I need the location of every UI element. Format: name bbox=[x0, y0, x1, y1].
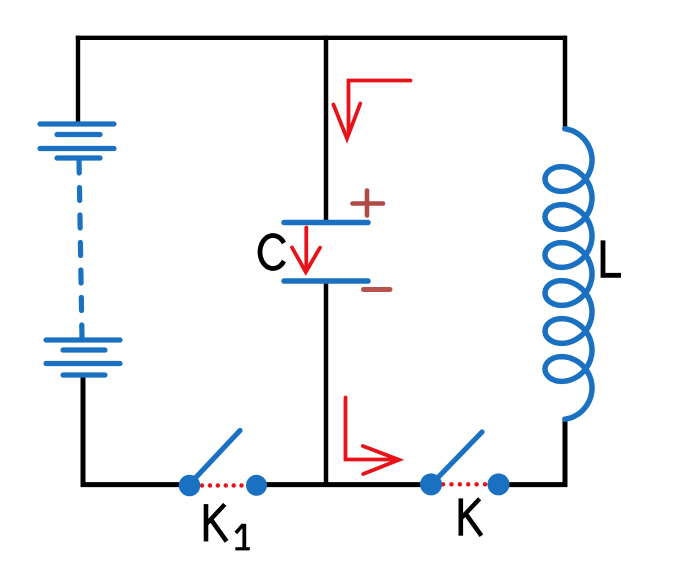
switch K: lever bbox=[437, 432, 482, 479]
battery B: top cell long plate bbox=[40, 121, 114, 126]
capacitor C: plus sign bbox=[353, 191, 384, 216]
capacitor C: bottom plate bbox=[284, 278, 368, 284]
capacitor C: label C bbox=[260, 236, 284, 269]
battery B: third cell short plate bbox=[63, 347, 105, 352]
wire: middle vertical lower (capacitor to bottom) bbox=[324, 281, 329, 487]
battery B: second cell long plate bbox=[40, 146, 114, 151]
switch K1: right contact dot bbox=[246, 475, 267, 496]
switch K: dotted contact gap bbox=[443, 482, 486, 486]
switch K1: dotted contact gap bbox=[202, 483, 242, 487]
current arrow top (red corner arrow pointing down) bbox=[333, 81, 410, 139]
wire: top horizontal bbox=[76, 36, 567, 40]
battery B: third cell long plate bbox=[46, 337, 120, 342]
wire: left vertical lower (battery bottom lead) bbox=[83, 376, 192, 485]
wire: right vertical lower (inductor to bottom corner) bbox=[497, 418, 565, 485]
battery B: fourth cell long plate bbox=[46, 361, 120, 366]
inductor L: label L bbox=[603, 240, 621, 275]
wire: middle vertical upper (to capacitor) bbox=[324, 36, 329, 223]
capacitor C: top plate bbox=[284, 220, 368, 226]
wire: bottom between K1 and K bbox=[254, 482, 433, 487]
switch K1: left contact dot bbox=[179, 475, 201, 497]
wire: right vertical upper (to inductor) bbox=[563, 36, 568, 130]
switch K1: label K1 bbox=[206, 504, 250, 549]
current arrow bottom (red corner arrow pointing right) bbox=[346, 398, 400, 475]
inductor L: coil bbox=[545, 129, 592, 419]
switch K1: lever bbox=[193, 431, 241, 482]
battery B: dashed link between cell groups bbox=[79, 160, 82, 338]
switch K: label K bbox=[461, 498, 482, 535]
switch K: left contact dot bbox=[420, 473, 442, 495]
capacitor C: red polarity arrow (down) bbox=[292, 228, 320, 273]
battery B: fourth cell short plate bbox=[63, 372, 105, 377]
battery B: second cell short plate bbox=[57, 155, 100, 160]
capacitor C: minus sign bbox=[364, 287, 391, 292]
switch K: right contact dot bbox=[488, 473, 510, 495]
battery B: top cell short plate bbox=[57, 132, 100, 137]
wire: left vertical upper (battery top lead) bbox=[76, 36, 80, 124]
